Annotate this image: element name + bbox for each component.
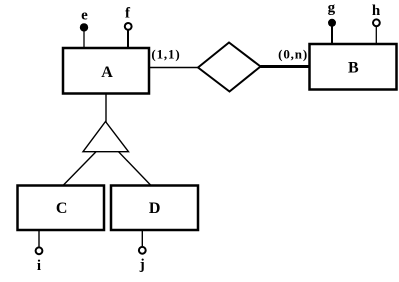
svg-text:C: C [56, 200, 68, 217]
svg-text:i: i [37, 258, 41, 274]
svg-text:D: D [149, 200, 161, 217]
svg-text:e: e [81, 8, 88, 24]
svg-text:(1,1): (1,1) [151, 47, 180, 62]
svg-text:(0,n): (0,n) [278, 47, 308, 62]
svg-text:g: g [328, 0, 336, 16]
svg-text:j: j [139, 257, 145, 273]
svg-text:A: A [101, 64, 113, 81]
svg-text:h: h [372, 3, 381, 19]
svg-text:B: B [348, 59, 359, 76]
